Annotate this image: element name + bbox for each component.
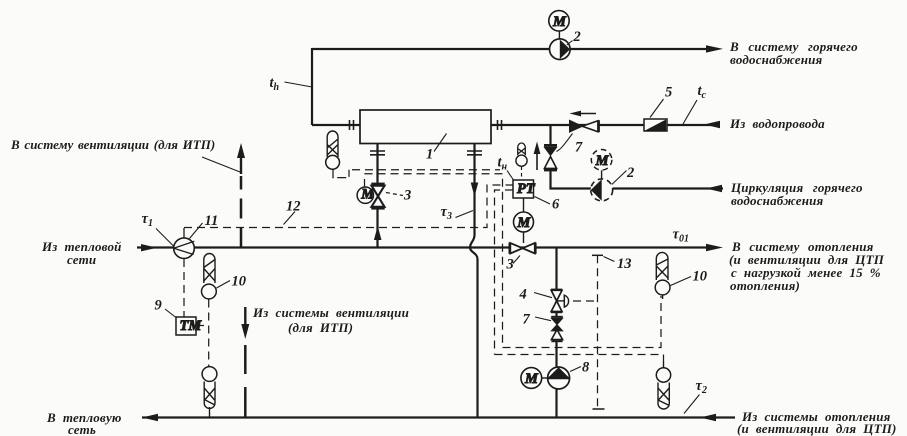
motor M of pump2 — [549, 11, 569, 31]
svg-text:(и вентиляции для ЦТП): (и вентиляции для ЦТП) — [737, 421, 897, 436]
thermometer lower-right (bulb up) — [663, 361, 665, 368]
svg-text:13: 13 — [617, 256, 632, 272]
wire dashed valve4 actuator to line13 — [573, 300, 596, 302]
heat exchanger U1 — [360, 110, 491, 144]
flange HE left — [350, 120, 354, 130]
wire cold water riser to safety valves — [549, 125, 551, 145]
svg-text:τ2: τ2 — [696, 378, 707, 396]
svg-text:11: 11 — [205, 213, 219, 229]
wire HE right outlet to water line — [491, 124, 719, 126]
node arrow to hot water system — [706, 45, 723, 52]
leader lines — [156, 41, 700, 414]
svg-text:5: 5 — [665, 85, 672, 101]
svg-text:4: 4 — [519, 287, 527, 303]
wire vent riser down (dashed) — [244, 345, 247, 417]
svg-text:3: 3 — [506, 257, 514, 273]
svg-text:τ01: τ01 — [673, 227, 689, 245]
svg-text:6: 6 — [552, 197, 560, 213]
wire dashed line 13 — [597, 255, 599, 408]
svg-text:8: 8 — [582, 360, 590, 376]
svg-text:М: М — [524, 371, 539, 387]
svg-text:τ1: τ1 — [142, 211, 153, 229]
svg-text:3: 3 — [403, 188, 411, 204]
wire main supply line — [137, 246, 716, 248]
safety valve pair on cold water riser — [544, 144, 557, 147]
wire circulation line right of pump — [613, 187, 723, 189]
check valve 7 on branch — [551, 316, 563, 318]
thermometer lower-left (bulb up) — [202, 367, 217, 382]
svg-text:7: 7 — [575, 140, 583, 156]
svg-text:РТ: РТ — [517, 181, 536, 197]
wire dashed rail B to lower thermometer — [495, 355, 664, 362]
svg-text:tн: tн — [498, 155, 508, 173]
thermometer left of HE — [327, 131, 338, 157]
wire dashed leader valve3 label — [386, 193, 403, 196]
filter 5 — [644, 119, 667, 131]
motor M of valve3 supply — [523, 232, 525, 243]
sensor thermometer above РТ — [518, 143, 526, 155]
thermometer 10 upper-right — [656, 252, 668, 280]
regulator РТ box 6 — [513, 180, 534, 198]
svg-text:10: 10 — [693, 269, 708, 285]
node arrow above valve (flow left) — [576, 113, 596, 115]
wire dashed from left thermometer — [333, 169, 349, 177]
svg-text:th: th — [270, 75, 280, 93]
node arrow from heating system (flow left) — [700, 414, 716, 421]
wire return line — [142, 416, 735, 418]
pump 2 hot water — [550, 39, 571, 60]
svg-text:(для ИТП): (для ИТП) — [288, 320, 353, 335]
svg-text:1: 1 — [426, 147, 433, 163]
node up arrow beside safety valves — [536, 150, 538, 170]
node arrow circulation (flow left) — [706, 185, 722, 192]
svg-text:В систему вентиляции (для ИТП): В систему вентиляции (для ИТП) — [10, 137, 215, 152]
control dashed lines — [184, 169, 664, 408]
svg-text:12: 12 — [286, 199, 301, 215]
node vent up arrow — [240, 152, 242, 174]
thermometer 10 upper-left — [204, 254, 215, 283]
svg-text:водоснабжения: водоснабжения — [730, 52, 823, 67]
node up arrow into supply — [374, 226, 382, 240]
wire between valve4 and check7 — [555, 312, 557, 317]
svg-text:2: 2 — [626, 165, 634, 181]
valve 4 with actuator — [551, 289, 562, 291]
wire valve3 to supply line — [376, 209, 378, 248]
wire check7 to pump8 — [555, 342, 557, 368]
svg-text:Из системы вентиляции: Из системы вентиляции — [252, 305, 409, 320]
wire dashed elevator to ТМ — [183, 259, 185, 317]
wire HE bottom-left pipe — [376, 144, 378, 184]
svg-text:сети: сети — [67, 252, 96, 267]
wire top-left riser t_h — [311, 48, 313, 125]
wire branch to mixing pump — [555, 248, 557, 291]
valve 7 on cold water line (half filled) — [570, 120, 583, 132]
svg-text:М: М — [360, 187, 375, 203]
svg-text:Из водопровода: Из водопровода — [729, 116, 825, 131]
wire pump8 to return line — [555, 389, 557, 417]
svg-text:отопления): отопления) — [730, 278, 800, 293]
svg-text:7: 7 — [523, 312, 531, 328]
wire dashed rail A to thermometer 10 — [503, 296, 662, 348]
wire dashed РТ to lower rail — [495, 190, 514, 355]
flange bottom-left pipe — [370, 151, 385, 155]
motor M of valve3 — [357, 187, 373, 203]
svg-text:tc: tc — [698, 83, 707, 101]
svg-text:сеть: сеть — [68, 422, 96, 436]
svg-text:водоснабжения: водоснабжения — [731, 193, 824, 208]
motor M of circulation pump (dashed) — [591, 150, 612, 171]
wire HE bottom-right pipe with jog — [470, 144, 478, 417]
node T-bar of line 13 — [592, 254, 603, 256]
node entry arrow from heat network — [141, 244, 157, 251]
wire dashed line 12 — [184, 185, 513, 228]
pump 8 mixing — [548, 367, 570, 389]
svg-text:9: 9 — [155, 298, 162, 314]
heat meter ТМ box 9 — [176, 317, 196, 335]
wire dashed to valve3 motor — [365, 174, 503, 348]
elevator 11 — [174, 238, 195, 259]
node vent down arrow — [244, 307, 246, 327]
flange HE right — [498, 120, 502, 130]
node arrow from waterline (flow left) — [704, 121, 720, 128]
svg-text:М: М — [552, 14, 567, 30]
svg-text:τ3: τ3 — [441, 204, 452, 222]
svg-text:10: 10 — [232, 274, 247, 290]
svg-text:М: М — [595, 153, 610, 169]
wire safety valve to circulation line — [551, 170, 592, 189]
valve 3 motorized on supply line (horizontal) — [508, 243, 511, 254]
wire top hot-water supply line — [312, 48, 716, 50]
svg-text:2: 2 — [573, 29, 581, 45]
motor M of pump8 — [521, 368, 542, 389]
node bottom T-bar of line 13 — [593, 408, 605, 410]
node down arrow on HE outlet pipe — [471, 183, 479, 197]
pump 2 circulation (dashed future) — [591, 179, 613, 201]
svg-text:М: М — [516, 215, 531, 231]
flange bottom-right pipe — [467, 151, 482, 155]
node return arrow to heat network — [142, 414, 158, 421]
wire dashed ТМ to thermometer stem — [196, 325, 209, 327]
wire dashed thermometer10-left stem — [208, 300, 210, 367]
valve 3 motorized on HE inlet (vertical) — [371, 183, 384, 185]
wire vent riser up (dashed) — [240, 176, 243, 248]
wire HE left inlet — [312, 124, 360, 126]
node arrow to heating system — [706, 244, 723, 251]
